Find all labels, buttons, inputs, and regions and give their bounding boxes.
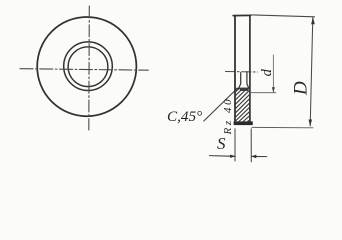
d extension line	[251, 92, 276, 94]
chamfer leader line	[204, 90, 236, 121]
S left arrow	[230, 155, 235, 159]
front view chamfer circle	[64, 42, 113, 91]
D dimension line	[310, 18, 313, 127]
section bottom edge	[234, 121, 253, 125]
D bottom extension line	[252, 126, 313, 128]
D dimension bottom arrow	[309, 120, 313, 127]
hole bottom edge	[237, 87, 250, 89]
roughness mark left leg	[238, 73, 241, 90]
S left extension line	[234, 129, 236, 161]
horizontal centerline	[20, 69, 148, 71]
S right extension line	[250, 129, 252, 162]
svg-text:Rz 40: Rz 40	[222, 97, 234, 136]
vertical centerline	[88, 6, 91, 130]
svg-text:d: d	[259, 68, 275, 76]
section top edge	[233, 14, 251, 16]
svg-text:D: D	[291, 81, 312, 96]
hole chamfer line	[235, 88, 239, 92]
D dimension top arrow	[311, 17, 315, 24]
S dimension line right	[251, 155, 266, 157]
S right arrow	[251, 155, 256, 159]
D top extension line	[251, 15, 315, 17]
d dimension line	[272, 55, 274, 92]
d dimension arrow	[272, 87, 275, 92]
roughness mark base	[239, 88, 249, 91]
front view outer circle	[37, 17, 136, 116]
front view hole circle	[68, 47, 108, 87]
svg-text:C,45°: C,45°	[167, 108, 202, 125]
S dimension line left	[210, 155, 236, 158]
section hatching	[235, 88, 250, 121]
svg-text:S: S	[217, 134, 226, 153]
section right edge	[249, 16, 251, 123]
roughness mark right leg	[247, 72, 249, 90]
section left edge	[234, 16, 236, 124]
section centerline	[226, 71, 258, 74]
